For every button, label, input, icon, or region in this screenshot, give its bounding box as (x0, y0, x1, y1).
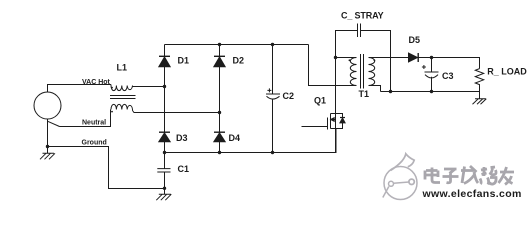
svg-text:D4: D4 (229, 133, 241, 143)
svg-text:Neutral: Neutral (82, 119, 106, 126)
svg-text:D3: D3 (176, 133, 188, 143)
mosfet Q1 source arrow (334, 119, 336, 121)
wire L1 top out to bridge (133, 86, 165, 88)
phase dot L1 top (111, 87, 113, 89)
wire bridge left leg (164, 45, 166, 153)
svg-text:C3: C3 (442, 71, 454, 81)
plus sign C2 (267, 88, 271, 92)
svg-text:Ground: Ground (82, 140, 107, 147)
junction dot D2-D4 neutral (218, 111, 221, 114)
diode D1 (159, 55, 170, 57)
watermark char zi (443, 169, 459, 183)
transformer T1 core (361, 54, 364, 89)
wire secondary bottom stair (369, 86, 381, 92)
phase dot T1 secondary (374, 59, 376, 61)
wire L1 bottom out to bridge (133, 111, 220, 113)
capacitor C2 (266, 45, 280, 153)
mosfet Q1 channel bar (330, 114, 332, 129)
junction dot bottom rail D4 (218, 151, 221, 154)
plus sign C3 (422, 65, 426, 69)
watermark char you (499, 167, 515, 185)
svg-text:VAC Hot: VAC Hot (82, 79, 111, 86)
svg-text:D5: D5 (409, 35, 421, 45)
transformer T1 secondary winding (369, 58, 375, 86)
mosfet Q1 body outline (331, 114, 343, 129)
junction dot output rail stray (389, 90, 392, 93)
svg-text:D2: D2 (233, 55, 245, 65)
svg-text:L1: L1 (117, 63, 128, 73)
mosfet Q1 gate lead (302, 126, 328, 128)
junction dot D1-D3 VAC (163, 85, 166, 88)
watermark char shao (480, 167, 496, 185)
diode D5 (409, 53, 418, 62)
junction dot primary top node (334, 56, 337, 59)
junction dot bottom rail C2 (271, 151, 274, 154)
svg-text:D1: D1 (178, 55, 190, 65)
junction dot bottom rail C1 (163, 151, 166, 154)
mosfet Q1 body diode (340, 117, 345, 119)
wire bridge top rail (165, 44, 309, 46)
phase dot T1 primary (349, 59, 351, 61)
junction dot C3 bottom (430, 90, 433, 93)
wire secondary top lead to D5 (369, 57, 409, 59)
wire primary main vertical (drain line) (335, 31, 337, 153)
capacitor C_STRAY loop right (361, 31, 391, 92)
watermark char dian (425, 168, 440, 183)
ground earth 2 (156, 189, 171, 201)
wire ground from source junction (48, 147, 165, 189)
wire neutral diagonal stub (48, 121, 60, 126)
capacitor C1 (157, 153, 170, 189)
capacitor C_STRAY loop left (336, 31, 358, 58)
junction dot C1 ground (163, 187, 166, 190)
wire neutral horizontal (60, 110, 111, 127)
svg-text:C_ STRAY: C_ STRAY (341, 11, 384, 21)
wire neutral lead from source bottom (47, 119, 49, 147)
inductor L1 core lines (110, 96, 136, 99)
wire primary top lead (336, 57, 357, 59)
resistor R_LOAD (475, 69, 483, 92)
svg-text:T1: T1 (359, 89, 370, 99)
junction dot top rail C2 (271, 43, 274, 46)
wire D5 cathode to load (418, 58, 479, 69)
transformer T1 primary winding (350, 58, 356, 86)
svg-text:Q1: Q1 (314, 95, 326, 105)
svg-text:www.elecfans.com: www.elecfans.com (422, 188, 522, 200)
svg-text:R_ LOAD: R_ LOAD (487, 66, 527, 76)
junction dot C3 top (430, 56, 433, 59)
diode D4 (214, 131, 225, 133)
junction dot ground-neutral (46, 145, 49, 148)
wire bridge right leg (219, 45, 221, 153)
inductor L1 bottom winding (111, 104, 133, 110)
svg-text:C2: C2 (283, 91, 295, 101)
diode D3 (159, 131, 170, 133)
wire feed from top rail to primary bottom (309, 45, 357, 86)
capacitor C_STRAY plates (358, 24, 361, 38)
ground earth 1 (40, 147, 55, 160)
AC source V1 (34, 92, 61, 119)
junction dot top rail D2 (218, 43, 221, 46)
inductor L1 top winding (111, 85, 133, 91)
capacitor C3 (425, 58, 439, 92)
watermark char fa (461, 166, 478, 184)
wire VAC hot lead from source top (48, 85, 112, 93)
wire output bottom rail (381, 91, 480, 93)
watermark elecfans logo and text (383, 154, 417, 200)
phase dot L1 bottom (111, 111, 113, 113)
ground earth 3 (473, 92, 487, 105)
diode D2 (214, 55, 225, 57)
wire bottom rail (165, 129, 337, 153)
mosfet Q1 gate bar (327, 118, 329, 130)
svg-text:C1: C1 (178, 164, 190, 174)
